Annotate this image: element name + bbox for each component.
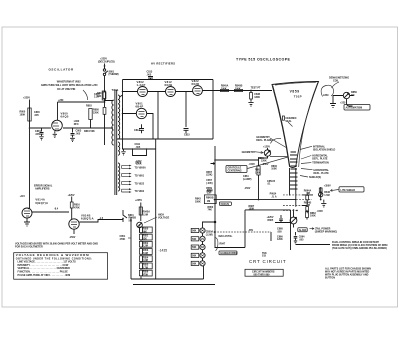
- svg-text:515: 515: [262, 255, 267, 258]
- junction dots: [29, 127, 31, 129]
- svg-text:74K: 74K: [208, 209, 213, 212]
- transformer T801 core: [115, 90, 117, 195]
- FOCUS box: [219, 202, 231, 205]
- svg-text:-8.4: -8.4: [54, 208, 59, 211]
- svg-text:56K: 56K: [192, 238, 197, 241]
- svg-text:PULSE AMPLITUDE AT V815 . .: PULSE AMPLITUDE AT V815 . . . . . . . . …: [18, 274, 71, 277]
- capacitor C815: [184, 129, 189, 134]
- svg-text:TO V800A: TO V800A: [135, 167, 147, 170]
- svg-text:DEFL. PLANE: DEFL. PLANE: [256, 139, 272, 142]
- svg-text:TYPE 515 OSCILLOSCOPE: TYPE 515 OSCILLOSCOPE: [236, 58, 291, 62]
- svg-text:470K: 470K: [74, 206, 80, 209]
- main grid wire: [215, 199, 297, 201]
- svg-text:100K: 100K: [310, 215, 316, 218]
- svg-text:TO V801: TO V801: [135, 175, 145, 178]
- svg-text:HV RECTIFIERS: HV RECTIFIERS: [151, 62, 175, 66]
- top bus: [123, 79, 214, 81]
- mid rail: [155, 139, 157, 279]
- svg-text:(DECOUPLED): (DECOUPLED): [98, 61, 115, 64]
- svg-text:100K: 100K: [221, 87, 227, 90]
- transformer primary winding: [112, 100, 114, 145]
- svg-text:6(BQ7)A: 6(BQ7)A: [81, 217, 94, 221]
- ASTIGMATISM box: [344, 105, 370, 111]
- heater taps to arrows: [122, 165, 132, 193]
- svg-text:-1.5: -1.5: [99, 217, 104, 220]
- svg-text:2.7M: 2.7M: [143, 266, 148, 269]
- svg-text:BUTTON: BUTTON: [325, 277, 335, 280]
- svg-text:LITE SHIELD: LITE SHIELD: [341, 189, 356, 192]
- svg-text:C812: C812: [134, 129, 140, 132]
- svg-text:.005: .005: [277, 231, 282, 234]
- svg-text:+225: +225: [340, 102, 346, 105]
- svg-text:56K: 56K: [192, 246, 197, 249]
- svg-text:GANGED R859: GANGED R859: [220, 252, 238, 255]
- ground V814A: [24, 218, 30, 226]
- wire loop left: [290, 210, 292, 250]
- plate wires: [123, 91, 273, 92]
- svg-text:TO V802: TO V802: [135, 190, 145, 193]
- svg-text:+115: +115: [20, 195, 26, 198]
- pot R858: [343, 92, 349, 98]
- wire plate row: [30, 127, 114, 129]
- svg-text:FOR EACH VOLTMETER: FOR EACH VOLTMETER: [15, 246, 43, 249]
- svg-text:T801: T801: [112, 88, 120, 92]
- svg-text:CENTERING: CENTERING: [228, 170, 242, 173]
- HV pot: [137, 222, 143, 228]
- svg-text:(82K): (82K): [206, 190, 212, 193]
- svg-text:MAX ASTIG.: MAX ASTIG.: [219, 235, 233, 238]
- svg-text:(THE GATE SAT) (UNBLANKING PUL: (THE GATE SAT) (UNBLANKING PULSE ADDED): [332, 247, 387, 250]
- svg-text:GEOMETRY: GEOMETRY: [242, 151, 256, 154]
- voltage readings box: [14, 253, 108, 280]
- cathode: [73, 229, 75, 234]
- drop to bottom bus: [158, 92, 186, 140]
- svg-text:220K: 220K: [136, 163, 142, 166]
- svg-text:-48V: -48V: [248, 229, 253, 232]
- tube V812: [166, 87, 176, 97]
- svg-text:6B4P: 6B4P: [136, 105, 144, 109]
- neon chain: [203, 266, 205, 279]
- svg-text:56K: 56K: [192, 254, 197, 257]
- svg-text:B801: B801: [128, 214, 134, 217]
- svg-text:+350V: +350V: [324, 185, 331, 188]
- resistor R863: [306, 212, 309, 218]
- svg-text:2.2M: 2.2M: [143, 245, 148, 248]
- svg-text:120K: 120K: [277, 238, 283, 241]
- cap C864: [294, 232, 298, 244]
- svg-text:TERMINATION: TERMINATION: [312, 162, 329, 165]
- svg-text:TEST PT: TEST PT: [251, 86, 261, 89]
- svg-text:100K: 100K: [235, 87, 241, 90]
- resistor R810: [102, 91, 105, 100]
- svg-text:.005: .005: [299, 238, 304, 241]
- resistor R800: [28, 108, 31, 121]
- pot R846: [319, 192, 323, 196]
- svg-text:SHIELD(S): SHIELD(S): [309, 176, 321, 179]
- svg-text:180K: 180K: [195, 200, 201, 203]
- svg-text:(THERM): (THERM): [109, 73, 119, 76]
- svg-text:R803: R803: [86, 105, 92, 108]
- svg-text:3.9M: 3.9M: [143, 252, 148, 255]
- wire leader to top bus: [83, 90, 88, 100]
- svg-text:1.5M: 1.5M: [324, 194, 329, 197]
- transformer secondary winding: [118, 95, 120, 139]
- lite shield box: [339, 187, 364, 192]
- svg-text:(LAMP): (LAMP): [243, 178, 252, 181]
- wire +250 bus: [58, 101, 105, 103]
- svg-text:V859: V859: [290, 90, 300, 94]
- svg-text:+125V: +125V: [263, 146, 270, 149]
- funnel shoulder shelf: [270, 156, 288, 158]
- bleeder ladder labels: [143, 227, 153, 276]
- tube V802: [138, 87, 148, 97]
- svg-text:1M: 1M: [207, 200, 210, 203]
- capacitor C804: [39, 128, 43, 140]
- svg-text:.005: .005: [76, 132, 81, 135]
- svg-text:+350V: +350V: [262, 163, 269, 166]
- cathode ground V800: [53, 131, 57, 137]
- tube V800: [52, 120, 63, 131]
- svg-text:1.5M: 1.5M: [143, 214, 148, 217]
- circuit numbers box: [245, 269, 283, 276]
- svg-text:DEFL. PLATE: DEFL. PLATE: [314, 172, 330, 175]
- wire to ladder: [79, 220, 123, 223]
- svg-text:ISOLATION SHIELD: ISOLATION SHIELD: [313, 149, 336, 152]
- svg-text:(.005): (.005): [206, 182, 212, 185]
- wire grid feed: [57, 102, 59, 120]
- svg-text:100K: 100K: [20, 113, 26, 116]
- component box R845B: [204, 195, 216, 204]
- svg-text:-150V: -150V: [317, 210, 324, 213]
- dotted bias wire: [215, 231, 272, 233]
- svg-text:56K: 56K: [143, 230, 148, 233]
- fuse F801: [104, 64, 106, 146]
- svg-text:82K: 82K: [143, 238, 148, 241]
- left rail: [130, 217, 132, 279]
- resistor R806: [103, 92, 106, 99]
- svg-text:10K: 10K: [97, 95, 102, 98]
- svg-text:-150V: -150V: [69, 236, 76, 239]
- svg-text:6X2B: 6X2B: [165, 83, 173, 87]
- dashed pin rows lower: [302, 195, 313, 206]
- capacitor C803: [70, 128, 75, 142]
- resistor R803: [89, 109, 92, 120]
- right bottom note: [325, 268, 371, 280]
- svg-text:AMPLITUDE WILL VARY WITH REGUL: AMPLITUDE WILL VARY WITH REGULATION +250: [41, 84, 98, 87]
- svg-text:6X2D: 6X2D: [192, 82, 200, 86]
- focus pot: [290, 217, 297, 224]
- CRT neck internals: [290, 168, 296, 207]
- svg-text:T51P: T51P: [294, 95, 302, 99]
- svg-text:470K: 470K: [143, 274, 149, 277]
- svg-text:+225V: +225V: [23, 97, 30, 100]
- align box: [298, 228, 307, 232]
- svg-text:FOCUS: FOCUS: [221, 203, 230, 206]
- neck pin dashes: [283, 195, 312, 211]
- svg-text:AMPLIFIERS: AMPLIFIERS: [35, 188, 50, 191]
- tail power arrow note: [310, 228, 315, 230]
- unblanking box: [226, 166, 247, 173]
- small labels left of rail 200-215: [211, 163, 216, 165]
- svg-text:180K: 180K: [254, 96, 260, 99]
- svg-text:R804 56K: R804 56K: [84, 130, 95, 133]
- svg-text:5.6M: 5.6M: [143, 259, 148, 262]
- rect box right: [212, 80, 214, 140]
- svg-text:L859: L859: [323, 94, 329, 97]
- wire to V814B: [32, 211, 69, 213]
- svg-text:C815: C815: [184, 134, 190, 137]
- wires V801: [123, 114, 154, 140]
- svg-text:6AQ5: 6AQ5: [61, 115, 69, 119]
- wire second row: [215, 210, 291, 248]
- svg-text:1-2AP: 1-2AP: [137, 83, 146, 87]
- svg-text:ASTIGMATISM: ASTIGMATISM: [346, 107, 363, 110]
- svg-text:-1435: -1435: [159, 249, 168, 253]
- CRT envelope V859: [272, 82, 319, 168]
- svg-text:+225V: +225V: [68, 194, 75, 197]
- bottom bus: [117, 138, 213, 140]
- svg-text:CRT CIRCUIT: CRT CIRCUIT: [249, 259, 286, 264]
- svg-text:DEFL. PLATE: DEFL. PLATE: [312, 158, 328, 161]
- svg-text:6(BQ7)A: 6(BQ7)A: [35, 201, 48, 205]
- svg-text:100K: 100K: [271, 168, 277, 171]
- svg-text:220K: 220K: [93, 111, 99, 114]
- tube V801: [136, 108, 146, 118]
- svg-text:56K: 56K: [192, 262, 197, 265]
- svg-text:TO V822: TO V822: [135, 183, 145, 186]
- graticule label inside: [282, 116, 284, 120]
- svg-text:56K: 56K: [192, 230, 197, 233]
- svg-text:VOLTAGE: VOLTAGE: [158, 217, 170, 220]
- ladder left rail resistor boxes: [139, 227, 142, 276]
- svg-text:RFC: RFC: [74, 123, 79, 126]
- svg-text:R847: R847: [220, 243, 226, 246]
- ladder bottom: [131, 278, 204, 280]
- svg-text:(SWEEP MARKING): (SWEEP MARKING): [315, 230, 337, 233]
- svg-text:DC AT V802 PIN: DC AT V802 PIN: [57, 88, 75, 91]
- tube V814A: [22, 208, 32, 218]
- svg-text:R865: R865: [268, 219, 274, 222]
- tube V814B: [69, 219, 79, 229]
- svg-text:(1.5M): (1.5M): [206, 233, 213, 236]
- svg-text:800 THRU 899: 800 THRU 899: [254, 273, 271, 276]
- capacitor C812: [139, 124, 144, 133]
- svg-text:(22K): (22K): [206, 174, 212, 177]
- svg-text:OSCILLATOR: OSCILLATOR: [49, 68, 74, 72]
- left cap C867: [279, 215, 283, 223]
- svg-text:.005: .005: [34, 114, 39, 117]
- svg-text:JL A: JL A: [272, 195, 277, 198]
- left drop: [120, 80, 123, 150]
- interlock: [123, 210, 127, 222]
- svg-text:-150V: -150V: [249, 163, 256, 166]
- svg-text:+225V: +225V: [135, 199, 142, 202]
- svg-text:-150V: -150V: [244, 187, 251, 190]
- wire left rail: [29, 100, 31, 209]
- svg-text:470K: 470K: [120, 238, 126, 241]
- svg-text:+250: +250: [58, 99, 64, 102]
- svg-text:.005: .005: [35, 133, 40, 136]
- resistor R808: [103, 108, 106, 115]
- tube V822: [193, 86, 203, 96]
- svg-text:SEAL: SEAL: [285, 120, 292, 123]
- svg-text:ALIGN: ALIGN: [299, 229, 307, 232]
